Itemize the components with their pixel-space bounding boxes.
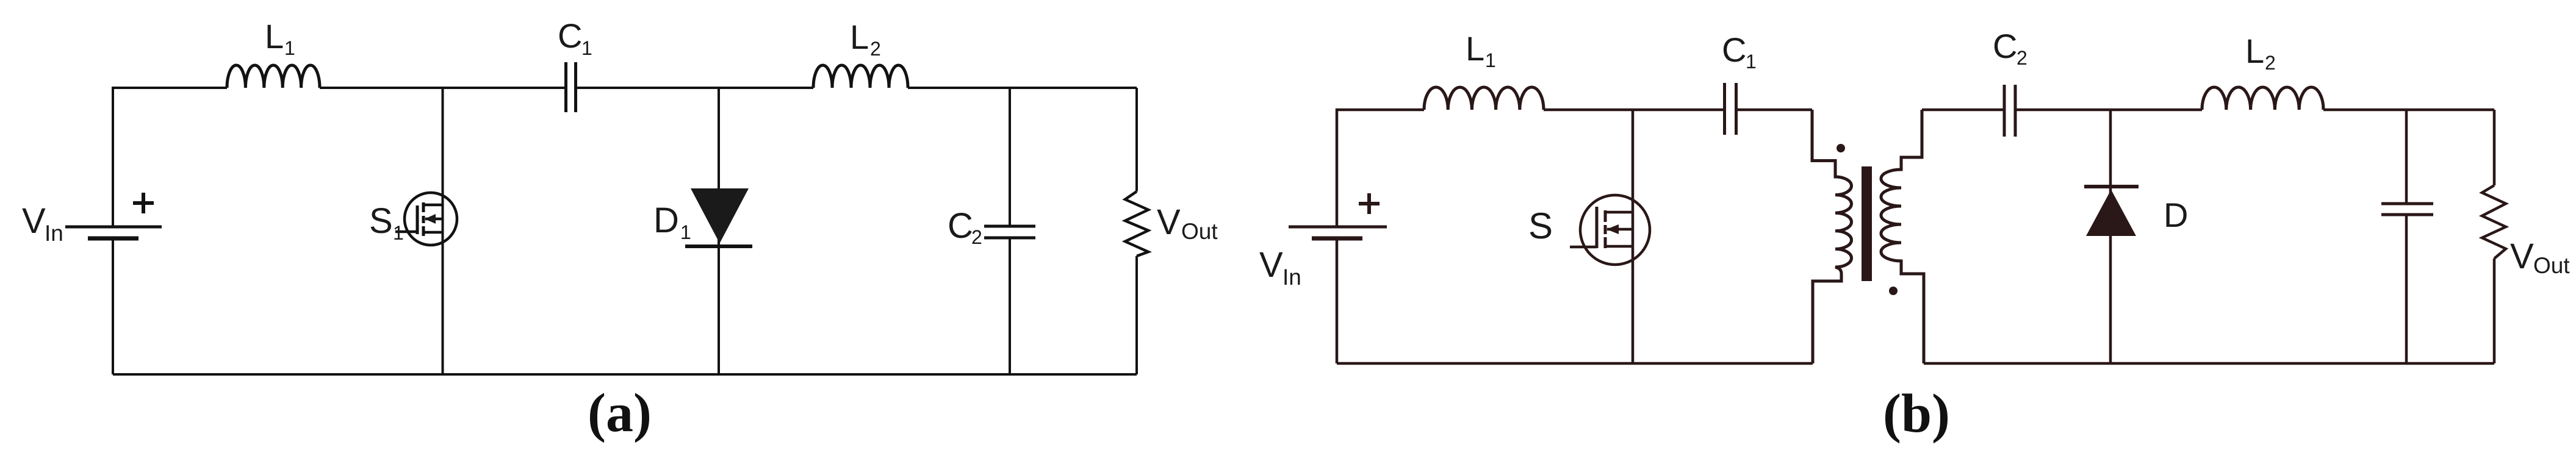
transistor S channel dashes	[1604, 210, 1607, 248]
svg-text:(b): (b)	[1883, 384, 1950, 444]
svg-text:S: S	[1528, 205, 1553, 246]
label C1 (a)	[558, 16, 592, 59]
transistor S1 gate plate	[416, 205, 419, 234]
label D	[2164, 196, 2188, 234]
svg-text:2: 2	[2017, 47, 2027, 69]
svg-text:(a): (a)	[588, 383, 652, 443]
wire b: battery negative to bottom rail	[1336, 239, 1339, 363]
svg-text:In: In	[45, 221, 63, 246]
svg-text:1: 1	[581, 37, 592, 59]
svg-text:L: L	[2245, 32, 2264, 70]
transformer T secondary winding	[1881, 110, 1924, 363]
svg-text:V: V	[22, 201, 46, 241]
battery V_In (a) plates	[65, 226, 162, 229]
transistor S1 circle	[405, 193, 457, 245]
node b: switch drain wire through S	[1632, 110, 1635, 363]
inductor L1 (b)	[1424, 87, 1544, 110]
transistor S1 channel dashes	[422, 202, 425, 236]
transformer T secondary dot	[1889, 287, 1898, 295]
label S1	[369, 201, 404, 244]
svg-text:In: In	[1283, 265, 1301, 290]
resistor V_Out (b) zigzag	[2482, 185, 2506, 259]
transistor S1 body bar	[425, 218, 443, 221]
inductor L2 (b)	[2202, 87, 2323, 110]
svg-text:L: L	[850, 18, 869, 56]
svg-text:2: 2	[870, 38, 881, 60]
svg-text:1: 1	[393, 222, 404, 244]
transistor S1 body arrow	[425, 214, 436, 224]
label V_In (a)	[22, 201, 63, 246]
wire a: battery negative to bottom rail	[112, 239, 114, 374]
inductor L1 (a)	[227, 65, 320, 88]
label D1	[653, 201, 691, 243]
wire a: right riser to resistor	[1135, 88, 1138, 191]
svg-text:Out: Out	[2533, 253, 2570, 278]
label V_In (b)	[1259, 245, 1301, 290]
wire a: top rail C1 to L2	[577, 87, 813, 89]
transistor S gate lead	[1570, 246, 1597, 249]
label L1 (a)	[265, 17, 295, 59]
wire b: C1 to transformer primary	[1738, 109, 1812, 112]
wire b: resistor to bottom rail	[2493, 259, 2496, 363]
wire a: bottom rail	[113, 373, 1137, 376]
label S	[1528, 205, 1553, 246]
capacitor C2 (a) plates	[984, 226, 1035, 238]
transistor S1 source bar	[423, 231, 443, 234]
wire a: top rail L2 to output corner	[908, 87, 1137, 89]
capacitor C1 (b) plates	[1725, 83, 1736, 135]
wire a: C2 branch upper	[1009, 88, 1011, 225]
label V_Out (a)	[1157, 202, 1218, 244]
battery V_In (a) plus sign	[133, 193, 154, 213]
transformer T primary dot	[1837, 144, 1845, 152]
label L2 (b)	[2245, 32, 2276, 74]
diode D1 cathode bar	[685, 244, 752, 248]
svg-text:C: C	[948, 206, 973, 246]
svg-text:Out: Out	[1181, 219, 1218, 244]
transistor S drain bar	[1605, 211, 1633, 214]
diode D cathode bar	[2084, 185, 2139, 188]
svg-text:V: V	[2510, 237, 2534, 276]
svg-text:V: V	[1259, 245, 1283, 285]
svg-text:S: S	[369, 201, 393, 241]
label C2 (b)	[1993, 27, 2027, 69]
transformer T core bar	[1862, 166, 1872, 281]
wire a: top rail L1 to C1	[320, 87, 565, 89]
svg-text:1: 1	[680, 221, 691, 243]
svg-text:1: 1	[1746, 51, 1757, 73]
wire b: bottom rail right loop	[1924, 362, 2494, 365]
resistor V_Out (a) zigzag	[1125, 191, 1148, 256]
wire a: diode branch through D1	[718, 88, 720, 374]
wire b: right riser to resistor	[2493, 110, 2496, 185]
svg-text:2: 2	[2265, 52, 2276, 74]
transistor S source bar	[1605, 245, 1633, 248]
transformer T primary winding	[1812, 110, 1852, 363]
diode D triangle	[2086, 190, 2136, 236]
label L1 (b)	[1466, 29, 1496, 71]
svg-text:D: D	[2164, 196, 2188, 234]
wire b: top rail L2 to output corner	[2323, 109, 2494, 112]
svg-text:V: V	[1157, 202, 1181, 242]
svg-text:C: C	[558, 16, 582, 55]
label L2 (a)	[850, 18, 881, 60]
capacitor C2 (b) plates	[2004, 85, 2015, 137]
svg-text:1: 1	[284, 37, 295, 59]
svg-text:2: 2	[971, 226, 982, 248]
label V_Out (b)	[2510, 237, 2570, 278]
transistor S gate plate	[1596, 207, 1599, 248]
svg-text:L: L	[265, 17, 284, 55]
wire a: resistor to bottom rail	[1135, 256, 1138, 374]
wire b: secondary top rail to C2	[1922, 109, 2004, 112]
battery V_In (b) plates	[1289, 226, 1387, 229]
svg-text:1: 1	[1485, 49, 1496, 71]
wire a: left riser and top rail to L1	[113, 88, 227, 226]
wire b: top rail L1 to C1	[1544, 109, 1724, 112]
transistor S circle	[1580, 195, 1650, 265]
transistor S body bar	[1607, 228, 1633, 231]
wire b: output capacitor branch lower	[2405, 216, 2408, 363]
label C2 (a)	[948, 206, 982, 248]
capacitor C1 (a) plates	[566, 62, 576, 112]
wire b: top rail C2 to L2	[2016, 109, 2202, 112]
capacitor output (b) plates	[2381, 204, 2433, 215]
wire b: left riser and top rail to L1	[1337, 110, 1424, 226]
svg-text:D: D	[653, 201, 679, 240]
inductor L2 (a)	[813, 65, 908, 88]
wire b: output capacitor branch upper	[2405, 110, 2408, 203]
transistor S1 drain bar	[423, 204, 443, 207]
svg-text:L: L	[1466, 29, 1484, 68]
wire a: C2 branch lower	[1009, 239, 1011, 374]
svg-text:C: C	[1993, 27, 2017, 65]
battery V_In (b) plus sign	[1359, 193, 1380, 214]
transistor S body arrow	[1606, 224, 1619, 234]
svg-text:C: C	[1722, 30, 1746, 69]
label C1 (b)	[1722, 30, 1757, 73]
diode D1 triangle	[691, 188, 749, 243]
transistor S1 gate lead	[395, 230, 417, 234]
node a: switch drain wire through S1	[442, 88, 444, 374]
wire b: diode branch through D	[2109, 110, 2112, 363]
wire b: bottom rail left loop	[1337, 362, 1813, 365]
